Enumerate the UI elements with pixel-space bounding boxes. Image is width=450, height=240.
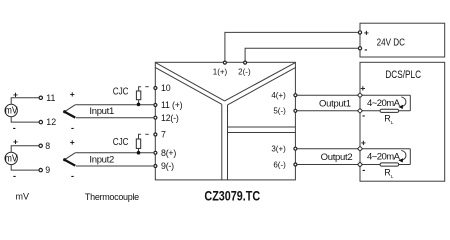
wire B1- to terminal 12 xyxy=(11,117,39,123)
CJC1 sensor xyxy=(136,91,140,100)
wire B2- to terminal 9 xyxy=(11,165,39,171)
CJC1 lead to input wire xyxy=(138,100,140,105)
terminal 2 circle xyxy=(244,61,247,64)
terminal 6 circle xyxy=(294,163,297,166)
loop1 diamond node - xyxy=(358,108,363,113)
CJC1 junction dot xyxy=(137,103,141,107)
terminal 4 circle xyxy=(294,94,297,97)
terminal 5 circle xyxy=(294,109,297,112)
svg-text:11: 11 xyxy=(46,93,55,103)
svg-text:6(-): 6(-) xyxy=(273,160,286,169)
loop1 current direction arc arrow xyxy=(398,97,406,109)
svg-text:CJC: CJC xyxy=(113,86,129,97)
TC2 wire + to terminal 8 of box xyxy=(75,152,153,154)
terminal 11 box circle xyxy=(154,104,157,107)
loop2 current direction arc arrow xyxy=(398,150,406,162)
wire terminal 5 to DCS loop1 bottom xyxy=(298,110,411,112)
TC1 top lead diagonal xyxy=(65,105,76,112)
terminal 12 box circle xyxy=(154,116,157,119)
isolator U1 CZ3079.TC body xyxy=(155,62,295,180)
CJC2 sensor xyxy=(136,139,140,148)
TC1 wire + to terminal 11 of box xyxy=(75,104,153,106)
wire terminal 4 to DCS loop1 top xyxy=(298,94,411,96)
TC1 bottom lead diagonal (bold) xyxy=(65,112,76,118)
terminal 9 circle xyxy=(39,168,42,171)
isolation barrier right vertical xyxy=(227,105,229,180)
svg-text:8: 8 xyxy=(45,141,50,151)
svg-text:L: L xyxy=(391,120,394,126)
PS1 minus terminal circle xyxy=(358,47,361,50)
svg-text:2(-): 2(-) xyxy=(238,67,251,76)
svg-text:mV: mV xyxy=(5,105,18,117)
load resistor RL2 xyxy=(380,163,399,166)
DCS/PLC box xyxy=(360,62,445,181)
loop2 right vertical wire xyxy=(409,149,411,165)
terminal 10 circle xyxy=(154,87,157,90)
loop2 diamond node + xyxy=(358,146,363,151)
wire B2+ to terminal 8 xyxy=(11,146,39,153)
channel divider upper line xyxy=(228,126,296,128)
terminal 3 circle xyxy=(294,147,297,150)
isolation barrier lower-left diagonal xyxy=(155,68,221,105)
svg-text:DCS/PLC: DCS/PLC xyxy=(385,69,421,81)
terminal 11 circle xyxy=(39,96,42,99)
load resistor RL1 xyxy=(380,109,399,112)
svg-text:9: 9 xyxy=(45,165,50,175)
svg-text:+: + xyxy=(360,83,365,93)
svg-text:11 (+): 11 (+) xyxy=(161,100,183,110)
svg-text:1(+): 1(+) xyxy=(213,67,228,76)
terminal 1 circle xyxy=(223,61,226,64)
svg-text:9(-): 9(-) xyxy=(161,161,174,171)
svg-text:-: - xyxy=(71,123,74,133)
svg-text:+: + xyxy=(13,137,18,147)
svg-text:12: 12 xyxy=(46,117,56,127)
wire terminal 6 to DCS loop2 bottom xyxy=(298,164,411,166)
channel divider lower line xyxy=(228,132,296,134)
loop2 diamond node - xyxy=(358,162,363,167)
svg-text:4(+): 4(+) xyxy=(271,91,286,100)
svg-text:-: - xyxy=(13,123,16,133)
svg-text:Input2: Input2 xyxy=(89,154,114,165)
terminal 7 circle xyxy=(154,133,157,136)
svg-text:3(+): 3(+) xyxy=(271,145,286,154)
svg-text:mV: mV xyxy=(5,153,18,165)
loop1 right vertical wire xyxy=(409,95,411,111)
svg-text:CZ3079.TC: CZ3079.TC xyxy=(204,188,260,203)
svg-text:mV: mV xyxy=(16,192,30,202)
terminal 12 circle xyxy=(39,120,42,123)
svg-text:-: - xyxy=(364,44,367,54)
TC1 wire - to terminal 12 of box xyxy=(76,117,153,119)
CJC2 lead to input wire xyxy=(138,148,140,152)
CJC1 dashed link to terminal 10 xyxy=(139,87,141,92)
isolation barrier upper-left diagonal xyxy=(155,63,224,101)
TC2 wire - to terminal 9 of box xyxy=(76,165,153,167)
svg-text:24V DC: 24V DC xyxy=(377,37,406,48)
svg-text:Output1: Output1 xyxy=(319,99,351,110)
svg-text:7: 7 xyxy=(161,130,166,140)
wire 24V- to terminal 2 xyxy=(245,48,358,60)
svg-text:-: - xyxy=(362,165,365,175)
mV source B1 xyxy=(5,104,18,117)
terminal 8 circle xyxy=(39,144,42,147)
svg-text:L: L xyxy=(391,174,394,180)
TC2 bottom lead diagonal (bold) xyxy=(65,160,76,166)
loop1 diamond node + xyxy=(358,93,363,98)
terminal 8 box circle xyxy=(154,151,157,154)
thermocouple TC2 junction dot xyxy=(63,158,66,161)
mV source B2 xyxy=(5,152,18,165)
svg-text:CJC: CJC xyxy=(113,136,129,147)
isolation barrier left vertical xyxy=(221,104,223,180)
svg-text:10: 10 xyxy=(161,83,171,93)
CJC2 junction dot xyxy=(137,151,141,155)
svg-text:5(-): 5(-) xyxy=(273,107,286,116)
svg-text:Thermocouple: Thermocouple xyxy=(85,192,139,202)
svg-text:4~20mA: 4~20mA xyxy=(367,152,401,163)
svg-text:-: - xyxy=(71,171,74,181)
wire B1+ to terminal 11 xyxy=(11,98,39,105)
power supply PS1 24V DC box xyxy=(360,23,445,57)
svg-text:-: - xyxy=(13,171,16,181)
isolation barrier lower-right diagonal xyxy=(228,68,296,105)
svg-text:8(+): 8(+) xyxy=(161,148,176,158)
thermocouple TC1 junction dot xyxy=(63,110,66,113)
svg-text:+: + xyxy=(361,137,366,147)
svg-text:+: + xyxy=(70,89,75,99)
svg-text:12(-): 12(-) xyxy=(161,113,179,123)
wire 24V+ to terminal 1 xyxy=(225,32,358,60)
svg-text:4~20mA: 4~20mA xyxy=(367,98,401,109)
svg-text:Input1: Input1 xyxy=(89,106,114,117)
svg-text:Output2: Output2 xyxy=(321,152,353,163)
svg-text:+: + xyxy=(70,137,75,147)
TC2 top lead diagonal xyxy=(65,153,76,160)
isolation barrier upper-right diagonal xyxy=(225,63,296,101)
CJC2 dashed link to terminal 7 xyxy=(139,134,142,139)
terminal 9 box circle xyxy=(154,165,157,168)
PS1 plus terminal circle xyxy=(358,31,361,34)
wire terminal 3 to DCS loop2 top xyxy=(298,148,411,150)
svg-text:-: - xyxy=(362,110,365,120)
svg-text:+: + xyxy=(364,28,369,38)
